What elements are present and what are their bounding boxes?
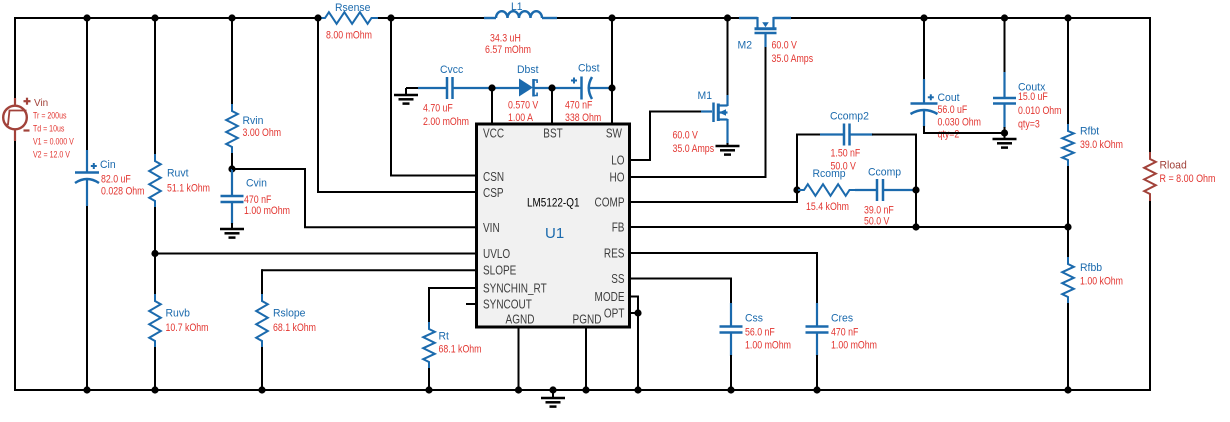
wire Ruvt-to-Ruvb (UVLO tap): [154, 207, 156, 295]
svg-text:60.0 V: 60.0 V: [772, 40, 798, 52]
svg-text:VIN: VIN: [483, 221, 500, 235]
diode Dbst: [519, 79, 533, 97]
svg-text:SYNCHIN_RT: SYNCHIN_RT: [483, 282, 547, 296]
svg-text:U1: U1: [545, 225, 564, 242]
capacitor Cin: [86, 150, 88, 172]
capacitor Cvin: [231, 169, 233, 196]
wire Rvin-to-Cvin: [231, 153, 233, 170]
svg-text:M2: M2: [738, 40, 753, 52]
wire Ccomp2 top right: [850, 133, 874, 135]
svg-text:Rfbb: Rfbb: [1080, 262, 1102, 274]
wire top rail M2-to-right corner segment: [791, 17, 1151, 19]
svg-text:SLOPE: SLOPE: [483, 264, 516, 278]
node bottom rail junctions: [83, 386, 90, 393]
svg-text:Rload: Rload: [1160, 160, 1187, 172]
svg-text:3.00 Ohm: 3.00 Ohm: [243, 127, 282, 139]
svg-text:1.00 kOhm: 1.00 kOhm: [1080, 276, 1123, 288]
svg-text:1.50 nF: 1.50 nF: [831, 148, 861, 160]
wire Ccomp to FB node: [883, 189, 916, 191]
wire VIN jog: [232, 168, 306, 170]
resistor Rfbb: [1062, 257, 1074, 304]
svg-text:68.1 kOhm: 68.1 kOhm: [439, 344, 482, 356]
wire MODE-OPT bracket: [628, 296, 639, 298]
wire LO to M1 gate: [628, 159, 650, 161]
wire Cout bottom to ground: [923, 126, 925, 134]
svg-text:15.4 kOhm: 15.4 kOhm: [806, 201, 849, 213]
svg-text:0.030 Ohm: 0.030 Ohm: [938, 117, 982, 129]
svg-text:0.010 Ohm: 0.010 Ohm: [1018, 105, 1062, 117]
wire Rslope top: [261, 269, 263, 295]
svg-text:Vin: Vin: [34, 97, 48, 109]
wire Cvcc to Dbst: [453, 87, 520, 89]
wire top rail left segment (Vin+ to Rsense): [14, 17, 318, 19]
node SW chain junction: [608, 84, 615, 91]
wire PGND: [585, 327, 587, 391]
svg-text:56.0 uF: 56.0 uF: [938, 104, 968, 116]
svg-text:Rslope: Rslope: [273, 308, 306, 320]
wire Rt bottom: [428, 368, 430, 391]
svg-text:82.0 uF: 82.0 uF: [101, 174, 131, 186]
wire Ccomp2 left leg: [796, 135, 798, 192]
wire Rcomp to Ccomp: [855, 189, 877, 191]
wire Ruvt branch top: [154, 17, 156, 155]
node COMP junction: [793, 186, 800, 193]
svg-text:Tr = 200us: Tr = 200us: [33, 111, 67, 121]
wire Css bottom: [730, 355, 732, 391]
svg-text:2.00 mOhm: 2.00 mOhm: [423, 116, 469, 128]
svg-text:SS: SS: [611, 272, 624, 286]
svg-text:Td = 10us: Td = 10us: [33, 124, 65, 134]
capacitor Ccomp: [876, 179, 879, 201]
inductor L1: [484, 17, 496, 19]
svg-text:COMP: COMP: [595, 196, 625, 210]
capacitor Cres: [816, 303, 818, 327]
node FB tap: [912, 223, 919, 230]
svg-text:470 nF: 470 nF: [565, 100, 593, 112]
svg-text:60.0 V: 60.0 V: [673, 130, 699, 142]
capacitor Cvcc: [446, 77, 449, 99]
svg-text:8.00 mOhm: 8.00 mOhm: [326, 29, 372, 41]
svg-text:470 nF: 470 nF: [831, 327, 859, 339]
node OPT junction: [634, 309, 641, 316]
wire CSP vertical: [317, 18, 319, 193]
svg-text:Ccomp: Ccomp: [868, 167, 901, 179]
voltage source Vin: [14, 98, 16, 106]
svg-text:Dbst: Dbst: [517, 64, 539, 76]
svg-text:MODE: MODE: [595, 290, 625, 304]
svg-text:1.00 A: 1.00 A: [508, 112, 534, 124]
wire HO to M2 gate: [628, 176, 767, 178]
svg-text:qty=3: qty=3: [1018, 119, 1040, 131]
svg-text:OPT: OPT: [604, 307, 625, 321]
svg-text:R = 8.00 Ohm: R = 8.00 Ohm: [1160, 173, 1216, 185]
svg-text:0.028 Ohm: 0.028 Ohm: [101, 186, 145, 198]
resistor Rvin: [226, 104, 238, 154]
svg-text:qty=2: qty=2: [938, 129, 960, 141]
svg-text:0.570 V: 0.570 V: [508, 100, 539, 112]
wire Rfbb bottom: [1067, 303, 1069, 391]
svg-text:56.0 nF: 56.0 nF: [745, 327, 775, 339]
node top rail junctions: [83, 14, 90, 21]
wire RES: [628, 252, 818, 254]
svg-text:10.7 kOhm: 10.7 kOhm: [166, 322, 209, 334]
svg-text:Rt: Rt: [439, 331, 449, 343]
svg-text:VCC: VCC: [483, 127, 504, 141]
wire bottom ground rail: [14, 389, 1151, 391]
wire Cvin to ground: [231, 223, 233, 229]
wire VCC pin stub: [491, 88, 493, 124]
wire SW vertical: [611, 17, 613, 124]
svg-text:Ccomp2: Ccomp2: [830, 111, 869, 123]
wire M1 drain: [727, 17, 729, 96]
ground Cvcc: [405, 88, 407, 95]
wire CSN vertical: [390, 18, 392, 177]
wire comp net to FB wire: [915, 134, 917, 228]
wire FB: [628, 226, 1068, 228]
resistor Rt: [423, 322, 435, 369]
wire Rfbt to FB node: [1067, 166, 1069, 258]
wire Cout top: [923, 17, 925, 80]
svg-text:35.0 Amps: 35.0 Amps: [772, 53, 814, 65]
svg-text:6.57 mOhm: 6.57 mOhm: [485, 44, 531, 56]
svg-text:Cvcc: Cvcc: [440, 64, 464, 76]
svg-text:V2 = 12.0 V: V2 = 12.0 V: [33, 150, 70, 160]
wire right output rail down to Rload: [1149, 17, 1151, 152]
wire BST pin stub: [551, 88, 553, 124]
node BST junction: [548, 84, 555, 91]
svg-text:Css: Css: [745, 313, 763, 325]
capacitor Coutx: [1003, 72, 1005, 98]
svg-text:CSN: CSN: [483, 170, 504, 184]
wire top rail Rsense-to-L1 segment: [391, 17, 484, 19]
transistor M2: [739, 17, 758, 19]
resistor Ruvt: [149, 154, 161, 208]
wire Cin branch lower: [86, 205, 88, 391]
wire left rail top (Vin to top rail): [14, 17, 16, 105]
resistor Rload: [1144, 152, 1156, 201]
wire Ruvb bottom: [154, 347, 156, 391]
wire Cres bottom: [816, 355, 818, 391]
resistor Ruvb: [149, 294, 161, 348]
svg-text:34.3 uH: 34.3 uH: [490, 33, 521, 45]
svg-text:1.00 mOhm: 1.00 mOhm: [745, 340, 791, 352]
svg-text:M1: M1: [698, 90, 713, 102]
capacitor Cout: [923, 79, 925, 104]
svg-text:Ruvb: Ruvb: [166, 308, 190, 320]
wire Ccomp2 top left: [796, 134, 821, 136]
wire Cin branch upper: [86, 17, 88, 150]
svg-text:Cbst: Cbst: [578, 63, 600, 75]
svg-text:AGND: AGND: [506, 313, 535, 327]
wire CSP horizontal: [317, 191, 477, 193]
wire OPT to ground rail: [637, 313, 639, 391]
svg-text:Rvin: Rvin: [243, 115, 264, 127]
svg-text:UVLO: UVLO: [483, 247, 510, 261]
svg-text:LO: LO: [611, 154, 625, 168]
svg-text:Ruvt: Ruvt: [167, 168, 189, 180]
svg-text:50.0 V: 50.0 V: [831, 161, 857, 173]
ground bottom rail: [552, 390, 554, 398]
svg-text:51.1 kOhm: 51.1 kOhm: [167, 183, 210, 195]
wire UVLO: [155, 253, 477, 255]
svg-text:PGND: PGND: [573, 313, 602, 327]
wire Rfbt top: [1067, 17, 1069, 125]
op-amp U1 body (LM5122-Q1): [477, 124, 630, 327]
capacitor Cbst: [580, 77, 583, 100]
ground M1 source: [727, 143, 729, 146]
wire left rail bottom (Vin to ground rail): [14, 130, 16, 391]
wire Cbst to SW node: [589, 87, 612, 89]
wire Rvin branch top: [231, 17, 233, 105]
resistor Rsense: [318, 12, 379, 24]
wire Dbst to Cbst: [534, 87, 581, 89]
wire AGND: [518, 327, 520, 391]
svg-text:35.0 Amps: 35.0 Amps: [673, 143, 715, 155]
resistor Rcomp: [797, 184, 857, 196]
wire ground to Cvcc: [406, 87, 420, 89]
svg-text:4.70 uF: 4.70 uF: [423, 103, 453, 115]
svg-text:RES: RES: [604, 247, 625, 261]
node VCC junction: [488, 84, 495, 91]
svg-text:338 Ohm: 338 Ohm: [565, 112, 601, 124]
svg-text:Cin: Cin: [100, 159, 116, 171]
svg-text:Cres: Cres: [831, 313, 854, 325]
svg-text:FB: FB: [612, 221, 625, 235]
wire top rail L1-to-M2 segment: [557, 17, 739, 19]
wire SLOPE: [262, 269, 477, 271]
wire Coutx bottom: [1004, 127, 1006, 134]
ground Cvin: [220, 228, 244, 231]
svg-text:Cout: Cout: [938, 92, 960, 104]
node UVLO tap: [151, 250, 158, 257]
wire right output rail below Rload: [1149, 201, 1151, 391]
wire Coutx top: [1004, 17, 1006, 73]
svg-text:68.1 kOhm: 68.1 kOhm: [273, 322, 316, 334]
svg-text:50.0 V: 50.0 V: [864, 216, 890, 228]
svg-text:Rsense: Rsense: [335, 2, 370, 14]
svg-text:39.0 kOhm: 39.0 kOhm: [1080, 139, 1123, 151]
node FB divider tap: [1064, 223, 1071, 230]
svg-text:HO: HO: [610, 171, 625, 185]
svg-text:SW: SW: [606, 127, 622, 141]
svg-text:1.00 mOhm: 1.00 mOhm: [244, 205, 290, 217]
node comp right junction: [912, 186, 919, 193]
wire SS: [628, 278, 732, 280]
wire SYNCHIN_RT: [429, 287, 477, 289]
wire COMP: [628, 201, 798, 203]
wire CSN horizontal: [390, 175, 477, 177]
capacitor Ccomp2: [843, 124, 846, 146]
svg-text:CSP: CSP: [483, 186, 504, 200]
svg-text:SYNCOUT: SYNCOUT: [483, 298, 532, 312]
resistor Rfbt: [1062, 124, 1074, 167]
svg-text:1.00 mOhm: 1.00 mOhm: [831, 340, 877, 352]
transistor M1: [701, 110, 712, 112]
svg-text:V1 = 0.000 V: V1 = 0.000 V: [33, 137, 74, 147]
wire SYNCOUT stub: [466, 303, 477, 305]
svg-text:15.0 uF: 15.0 uF: [1018, 91, 1048, 103]
node output cap ground: [1001, 129, 1008, 136]
svg-text:LM5122-Q1: LM5122-Q1: [527, 198, 580, 210]
svg-text:BST: BST: [543, 127, 563, 141]
svg-text:L1: L1: [511, 1, 523, 13]
svg-text:Rfbt: Rfbt: [1080, 126, 1099, 138]
ground Coutx: [1004, 133, 1006, 139]
resistor Rslope: [256, 294, 268, 348]
wire Rslope bottom: [261, 347, 263, 391]
capacitor Css: [730, 303, 732, 327]
node VIN filter tap: [228, 165, 235, 172]
svg-text:Cvin: Cvin: [246, 178, 267, 190]
